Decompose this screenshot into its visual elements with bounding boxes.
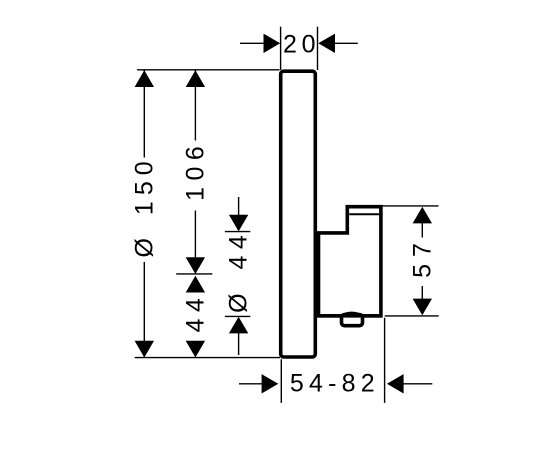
- arrow left 20 right: [318, 34, 335, 53]
- dim line 106 lower segment: [194, 211, 196, 258]
- svg-text:57: 57: [408, 236, 436, 278]
- arrow down 57 bottom: [413, 299, 432, 316]
- svg-text:54-82: 54-82: [290, 370, 380, 398]
- svg-text:Ø 44: Ø 44: [225, 229, 253, 313]
- arrow right 20 left: [264, 34, 281, 53]
- svg-text:Ø 150: Ø 150: [131, 155, 159, 257]
- extension line 54-82 right: [384, 318, 386, 403]
- leader 54-82 left: [239, 383, 262, 385]
- extension line valve center: [176, 273, 212, 275]
- extension line handle-body bottom (left of plate): [225, 315, 250, 317]
- arrow right 54-82 left: [262, 374, 279, 393]
- dim line Ø150 upper segment: [143, 70, 145, 157]
- svg-text:106: 106: [181, 140, 209, 201]
- arrow up 57 top: [413, 207, 432, 224]
- dim line Ø150 lower segment: [143, 262, 145, 358]
- dim line 57 lower segment: [421, 286, 423, 299]
- leader 20 left: [240, 42, 264, 44]
- svg-text:20: 20: [283, 31, 320, 59]
- cap inner line: [349, 213, 379, 215]
- svg-text:44: 44: [181, 292, 209, 333]
- arrow down 44 bottom: [186, 341, 205, 358]
- plate (wall plate side view): [281, 71, 316, 357]
- extension line cap top (right side): [381, 205, 439, 207]
- extension line 20-dim right: [317, 27, 319, 70]
- arrow up Ø150 top: [135, 70, 154, 87]
- arrow left 54-82 right: [387, 374, 404, 393]
- bottom tab: [342, 315, 363, 326]
- arrow up 44 top (junction): [186, 276, 205, 293]
- arrow down 106 bottom (junction): [186, 257, 205, 274]
- extension line top-left (plate top projection): [137, 69, 280, 71]
- extension line 20-dim left: [280, 27, 282, 70]
- dim line 57 upper segment: [421, 223, 423, 238]
- arrow up Ø44 bottom: [229, 317, 248, 334]
- dim line Ø44 upper segment: [238, 197, 240, 216]
- extension line handle bottom (right side): [385, 315, 439, 317]
- arrow down Ø44 top: [229, 215, 248, 232]
- arrow down Ø150 bottom: [135, 341, 154, 358]
- dim line Ø44 lower segment: [238, 332, 240, 355]
- dim line 106 upper segment: [194, 70, 196, 140]
- tab top bump: [343, 313, 361, 315]
- extension line handle-body top (left of plate): [225, 231, 250, 233]
- handle bottom edge overlay (covers tab top): [319, 314, 381, 318]
- extension line 54-82 left: [280, 359, 282, 403]
- arrow up 106 top: [186, 70, 205, 87]
- leader 54-82 right: [403, 383, 432, 385]
- extension line bottom-left (plate bottom projection): [135, 357, 280, 359]
- leader 20 right: [335, 42, 358, 44]
- handle silhouette (body + top cap): [319, 207, 381, 316]
